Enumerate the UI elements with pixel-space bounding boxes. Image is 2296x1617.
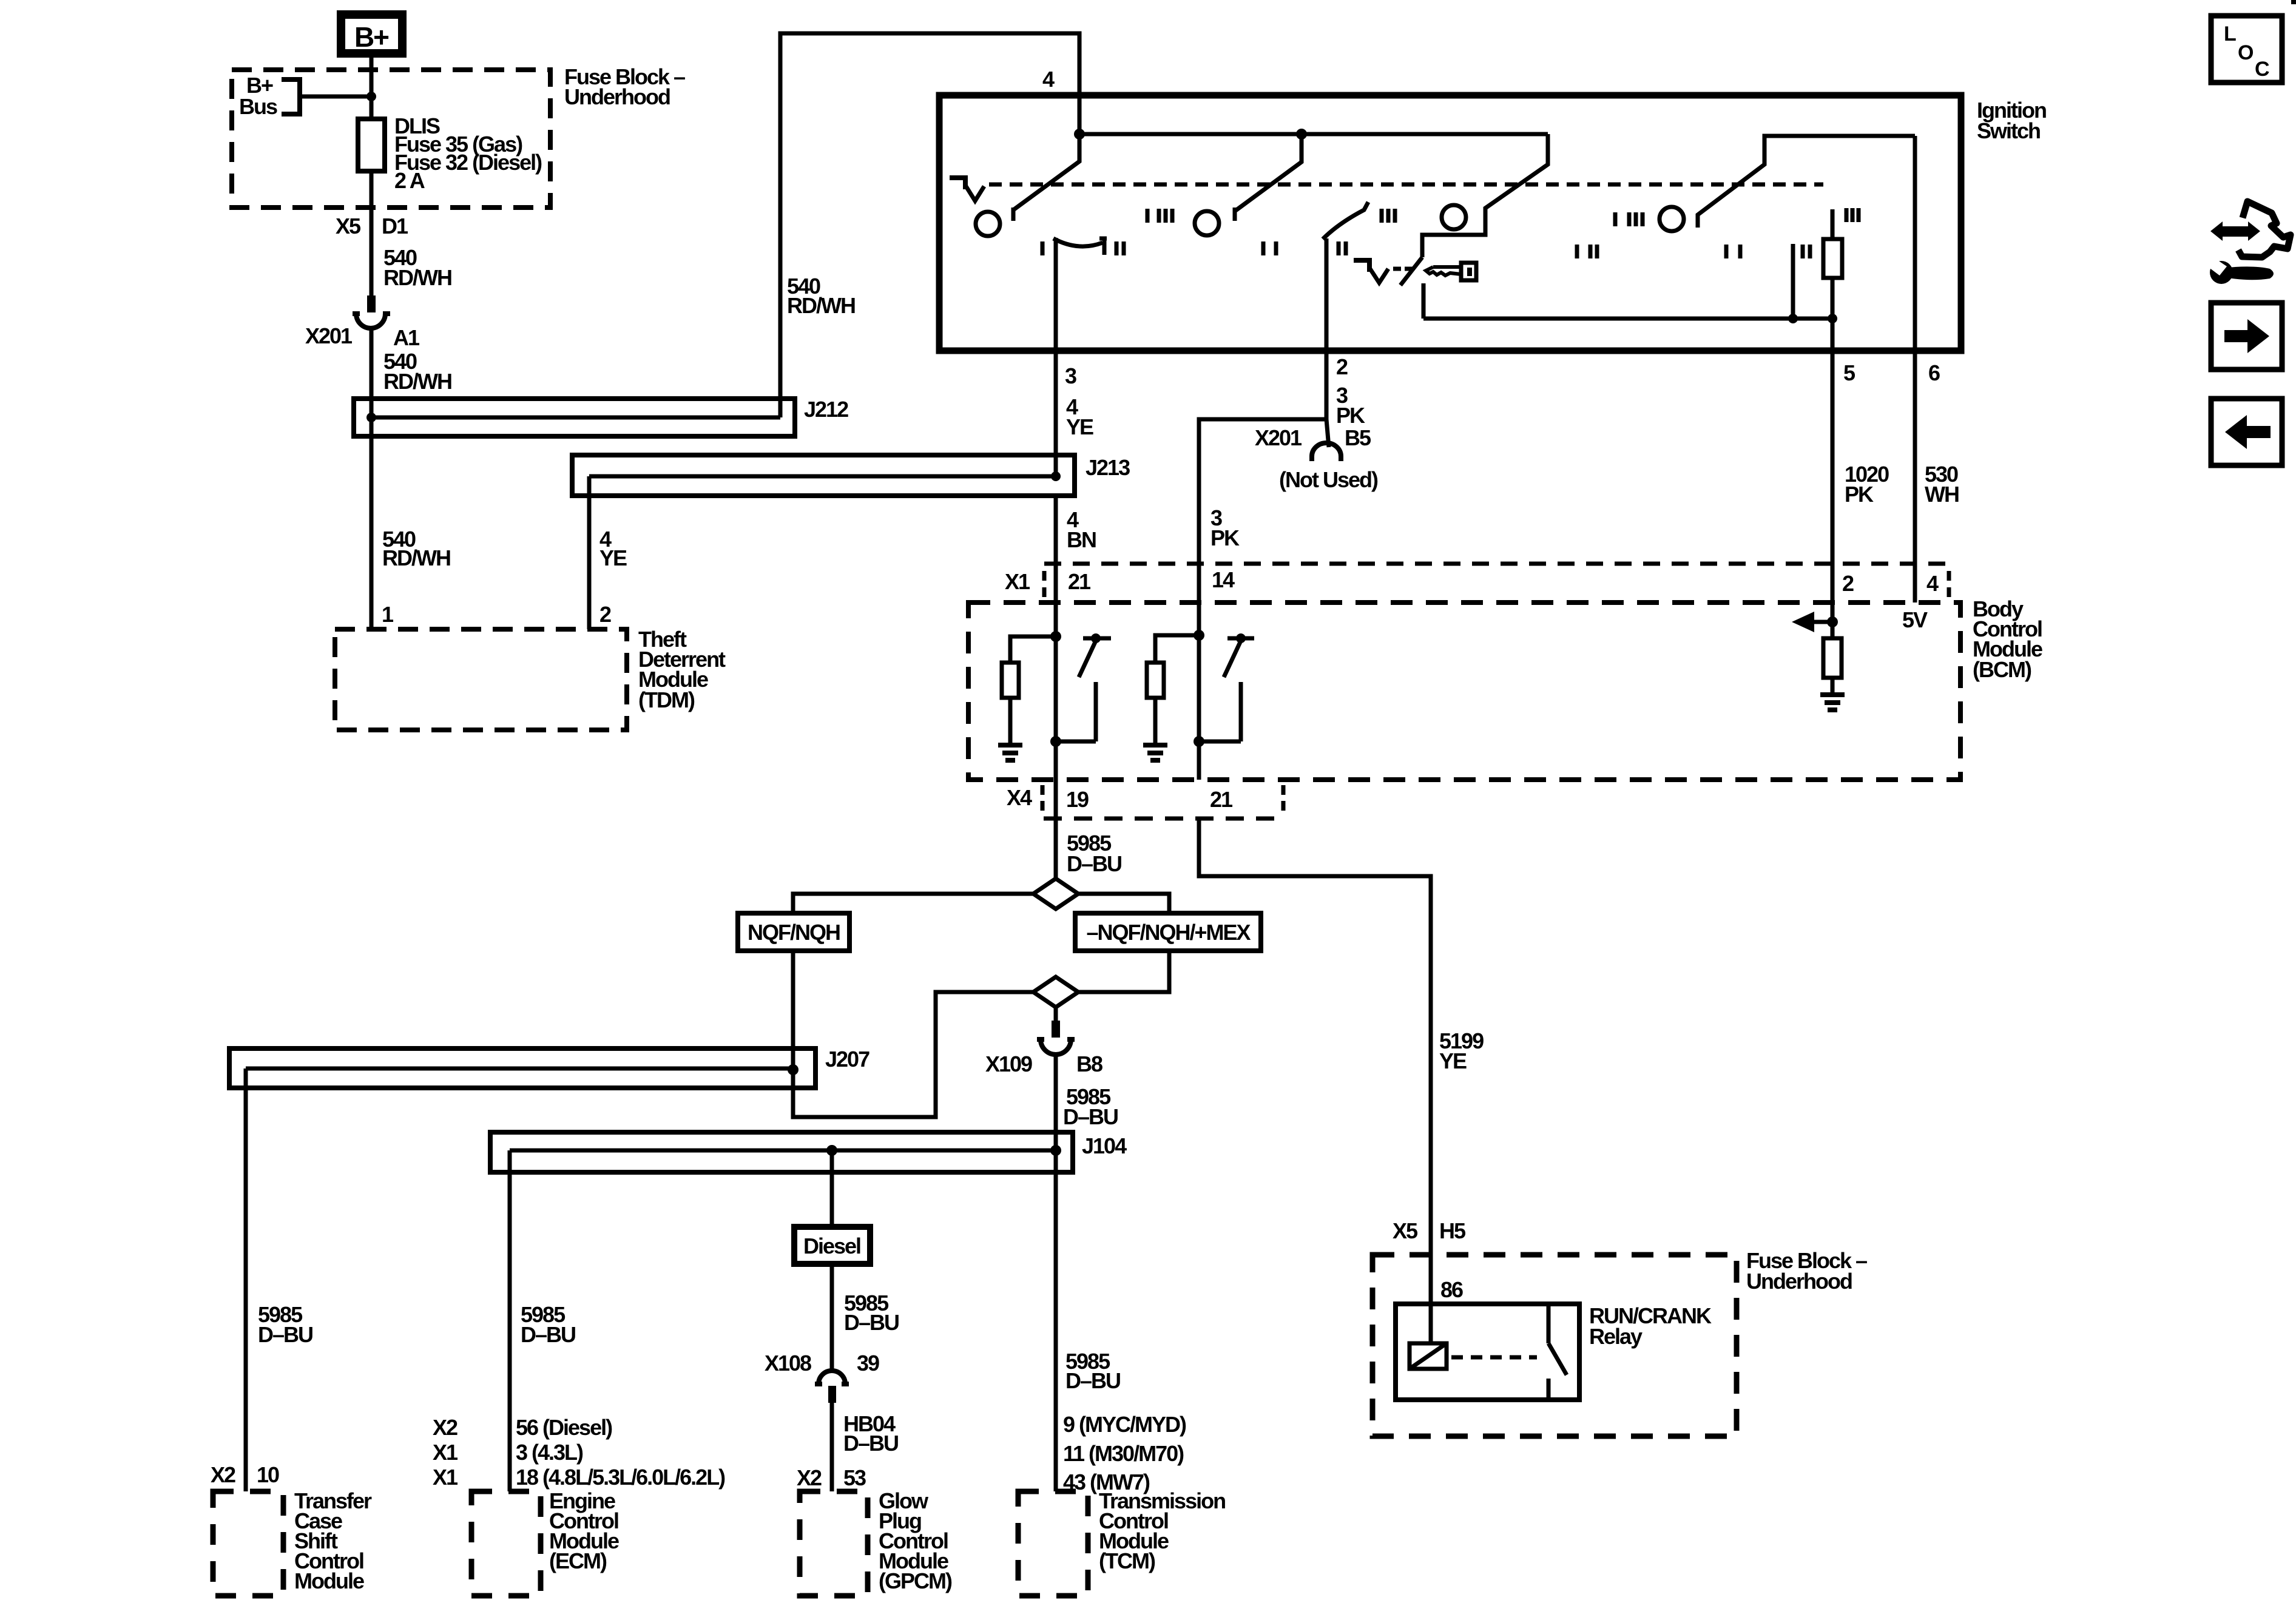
svg-text:14: 14	[1212, 567, 1235, 592]
left arrow icon box	[2211, 399, 2282, 465]
svg-text:(GPCM): (GPCM)	[879, 1568, 952, 1593]
label Theft Deterrent Module (TDM)	[638, 627, 726, 712]
splice diamond 2	[1033, 977, 1078, 1007]
node junction at J212	[366, 413, 376, 422]
wire X4-19 down	[1054, 780, 1058, 880]
ticks II near resistor	[1803, 245, 1810, 258]
label 4 YE (to TDM)	[599, 527, 627, 570]
svg-text:B+: B+	[354, 21, 388, 53]
svg-text:X201: X201	[305, 323, 353, 348]
wire B+ down	[370, 58, 374, 119]
pole 3 ticks I II (lower)	[1577, 245, 1597, 258]
label Ignition Switch	[1977, 98, 2046, 143]
svg-text:Switch: Switch	[1977, 118, 2040, 143]
svg-text:O: O	[2238, 41, 2254, 64]
svg-text:C: C	[2255, 58, 2270, 81]
theft deterrent module TDM box	[335, 629, 627, 730]
wire J207 to transfer case module	[244, 1068, 248, 1491]
pole 4 ticks I III (upper)	[1615, 212, 1643, 226]
svg-text:X109: X109	[985, 1052, 1032, 1076]
svg-text:39: 39	[857, 1351, 879, 1376]
wire BCM X4-21 to relay 86	[1199, 819, 1431, 1343]
relay actuation dashed link	[1451, 1355, 1537, 1360]
svg-text:D1: D1	[382, 214, 408, 238]
label X2 53 (GPCM pins)	[797, 1465, 866, 1490]
ignition switch box	[939, 95, 1961, 351]
svg-text:56 (Diesel): 56 (Diesel)	[516, 1415, 612, 1440]
label Transfer Case Shift Control Module	[294, 1488, 372, 1593]
node header dot 2	[1296, 129, 1307, 140]
svg-text:D–BU: D–BU	[1065, 1368, 1120, 1393]
connector X201 B5 (not used)	[1312, 443, 1341, 461]
label X5 D1	[336, 214, 408, 238]
svg-text:(Not Used): (Not Used)	[1279, 467, 1378, 492]
svg-text:RD/WH: RD/WH	[383, 369, 451, 394]
wire to resistor A	[1010, 636, 1056, 663]
svg-text:(BCM): (BCM)	[1973, 657, 2031, 682]
svg-text:X108: X108	[765, 1351, 811, 1376]
wire diamond1 right branch	[1078, 894, 1169, 913]
svg-text:J212: J212	[804, 397, 848, 422]
svg-text:4: 4	[1926, 571, 1939, 596]
ticks III right of crank arc	[1382, 209, 1395, 223]
page corner mark	[2291, 0, 2296, 4]
label X201 A1	[305, 323, 420, 350]
label RUN/CRANK Relay	[1589, 1303, 1712, 1349]
node header dot 1	[1074, 129, 1085, 140]
wire stub to X201 B5	[1326, 419, 1329, 447]
svg-text:D–BU: D–BU	[1063, 1104, 1118, 1129]
label HB04 D-BU	[843, 1411, 898, 1456]
label 5985 D-BU (GPCM)	[844, 1291, 899, 1335]
svg-text:D–BU: D–BU	[258, 1322, 312, 1347]
label X108 39	[765, 1351, 879, 1376]
wire resistor A to ground	[1008, 698, 1013, 744]
wire ignition pin 5 to BCM	[1831, 319, 1835, 638]
label X109 B8	[985, 1052, 1102, 1076]
node dot J104 diesel branch	[826, 1145, 837, 1156]
wire BCM input 21	[1054, 564, 1058, 780]
switch BCM A	[1079, 633, 1111, 741]
wire J213 to TDM pin 2	[587, 476, 592, 629]
svg-text:D–BU: D–BU	[843, 1431, 898, 1456]
svg-text:5: 5	[1843, 360, 1855, 385]
switch pole 2 arm	[1235, 134, 1302, 221]
svg-text:Underhood: Underhood	[564, 84, 670, 109]
pole 1 lower tick I	[1041, 241, 1045, 255]
svg-text:11 (M30/M70): 11 (M30/M70)	[1063, 1441, 1184, 1466]
node dot branch A top	[1050, 631, 1061, 642]
node dot J104 main	[1050, 1145, 1061, 1156]
svg-text:PK: PK	[1336, 403, 1365, 428]
wire J104 to ECM	[508, 1150, 512, 1491]
svg-text:X5: X5	[336, 214, 361, 238]
svg-text:3: 3	[1065, 363, 1076, 388]
label 5985 D-BU (ECM)	[521, 1302, 575, 1347]
svg-text:6: 6	[1928, 360, 1940, 385]
svg-text:(ECM): (ECM)	[549, 1548, 607, 1573]
relay coil	[1410, 1343, 1447, 1369]
svg-text:YE: YE	[1066, 414, 1093, 439]
svg-text:B5: B5	[1345, 425, 1371, 450]
wire ignition header	[1079, 132, 1548, 137]
wire fuse to X201	[370, 171, 374, 295]
svg-text:21: 21	[1210, 787, 1233, 812]
wire J104 bus	[510, 1149, 1056, 1153]
svg-text:NQF/NQH: NQF/NQH	[748, 920, 840, 945]
wire J212 bus	[371, 416, 780, 420]
node dot branch B bottom	[1194, 736, 1204, 747]
wire position II contact	[1791, 244, 1795, 319]
svg-text:H5: H5	[1439, 1218, 1466, 1243]
ground BCM B	[1143, 745, 1167, 760]
svg-text:86: 86	[1440, 1277, 1463, 1302]
contact circle pole 3	[1442, 205, 1466, 229]
svg-text:1: 1	[382, 602, 394, 627]
label 1020 PK	[1845, 462, 1889, 507]
svg-text:10: 10	[257, 1462, 279, 1487]
label 530 WH	[1925, 462, 1959, 507]
right arrow icon box	[2211, 303, 2282, 370]
svg-text:Underhood: Underhood	[1746, 1269, 1852, 1294]
wire key lower contact	[1422, 283, 1426, 319]
wire diamond1 left branch	[793, 894, 1033, 913]
svg-text:2: 2	[1336, 354, 1348, 379]
svg-text:X5: X5	[1393, 1218, 1418, 1243]
glow plug control module box	[800, 1491, 868, 1596]
transfer case shift control module box	[213, 1491, 283, 1596]
wire 3 PK from pin 2 to BCM 14	[1199, 351, 1326, 564]
pole 2 ticks II (right of wire 2)	[1339, 241, 1346, 255]
label Glow Plug Control Module (GPCM)	[879, 1488, 952, 1593]
pole 4 lower ticks I I	[1726, 245, 1740, 258]
wire ignition pin 3	[1054, 238, 1058, 476]
svg-text:19: 19	[1066, 787, 1089, 812]
wire diamond2 down to X109	[1054, 1007, 1058, 1021]
wire switch B return bus	[1199, 740, 1241, 744]
pole 2 ticks I III (upper)	[1147, 209, 1172, 223]
splice diamond 1	[1033, 879, 1078, 909]
label X2 10 (transfer pins)	[211, 1462, 279, 1487]
label 5985 D-BU (below X4)	[1067, 831, 1121, 876]
wire resistor B to ground	[1153, 698, 1158, 744]
svg-text:YE: YE	[599, 545, 627, 570]
connector X201 A1 inline	[353, 295, 390, 328]
label TDM pins 1 2	[382, 602, 611, 627]
pole 1 wiper arc	[1053, 238, 1107, 255]
svg-text:4: 4	[1042, 67, 1055, 92]
svg-text:(TDM): (TDM)	[638, 687, 695, 712]
svg-text:X1: X1	[433, 1465, 458, 1490]
svg-text:X201: X201	[1255, 425, 1302, 450]
wire key output bus	[1423, 317, 1832, 321]
contact circle pole 1	[976, 212, 1000, 236]
label ECM pin rows	[433, 1415, 725, 1490]
label Fuse Block - Underhood (relay)	[1746, 1248, 1867, 1294]
resistor BCM 5V pull	[1823, 638, 1842, 693]
node junction at B+ feed	[366, 92, 376, 101]
label Engine Control Module (ECM)	[549, 1488, 619, 1573]
wire J207 bus	[246, 1067, 793, 1071]
label X201 B5	[1255, 425, 1371, 450]
label TCM pin rows	[1063, 1412, 1186, 1494]
label 5985 D-BU (transfer)	[258, 1302, 312, 1347]
svg-text:X2: X2	[797, 1465, 822, 1490]
contact circle pole 2	[1195, 211, 1219, 235]
key actuation dashes	[1393, 267, 1413, 271]
node dot J207	[788, 1064, 799, 1075]
option box -NQF/NQH/+MEX	[1075, 913, 1261, 951]
resistor BCM B	[1147, 663, 1164, 698]
B+ power symbol	[341, 15, 402, 53]
svg-text:2: 2	[1842, 571, 1854, 596]
wire J104 to Diesel box	[830, 1150, 834, 1227]
wire X201 to J212 and TDM	[370, 328, 374, 629]
option box NQF/NQH	[738, 913, 849, 951]
svg-text:Diesel: Diesel	[803, 1234, 860, 1258]
node dot branch A bottom	[1050, 736, 1061, 747]
label 4 YE	[1066, 394, 1093, 439]
svg-text:RD/WH: RD/WH	[382, 545, 450, 570]
wire MEX branch down	[1078, 951, 1169, 992]
option box Diesel	[794, 1227, 870, 1264]
wire switch A return bus	[1056, 740, 1096, 744]
svg-text:2: 2	[599, 602, 611, 627]
connector X1 dotted strip	[1044, 564, 1949, 597]
svg-text:J213: J213	[1086, 455, 1130, 480]
splice pack J213	[572, 455, 1075, 496]
label Transmission Control Module (TCM)	[1099, 1488, 1225, 1573]
ground BCM 5V	[1820, 695, 1845, 710]
switch pole 3 key arm	[1422, 134, 1548, 257]
relay switch	[1548, 1304, 1567, 1400]
B+ bus bracket	[282, 79, 300, 114]
fuse block underhood box (top)	[232, 70, 550, 208]
splice pack J207	[229, 1048, 815, 1088]
RUN/CRANK relay box	[1396, 1304, 1579, 1400]
wire X108 to GPCM	[830, 1403, 834, 1491]
fuse block underhood dashed box (relay)	[1373, 1255, 1737, 1436]
svg-text:Relay: Relay	[1589, 1324, 1643, 1349]
label Fuse Block - Underhood	[564, 64, 685, 109]
svg-text:WH: WH	[1925, 482, 1959, 507]
label 540 RD/WH (above X201)	[383, 245, 451, 290]
label B+ Bus	[239, 73, 277, 119]
label Body Control Module (BCM)	[1973, 596, 2042, 682]
svg-text:21: 21	[1068, 569, 1091, 594]
switch pole 1 arm	[1013, 134, 1079, 221]
wire J213 to BCM X1-21	[1054, 496, 1058, 564]
svg-text:B8: B8	[1076, 1052, 1102, 1076]
wire ignition pin 2	[1325, 238, 1329, 351]
svg-text:3 (4.3L): 3 (4.3L)	[516, 1440, 583, 1465]
contact circle pole 4	[1660, 207, 1684, 231]
wire 540 RD/WH to ignition switch pin 4	[780, 33, 1079, 417]
svg-text:(TCM): (TCM)	[1099, 1548, 1155, 1573]
svg-text:RD/WH: RD/WH	[383, 265, 451, 290]
fuse DLIS Fuse 35 (Gas) Fuse 32 (Diesel) 2A	[358, 113, 542, 193]
svg-text:2 A: 2 A	[394, 168, 425, 193]
node dot II contact	[1788, 314, 1798, 323]
internal 5V arrow	[1792, 612, 1838, 632]
hand with wrench icon	[2205, 201, 2291, 284]
svg-text:A1: A1	[393, 325, 420, 350]
svg-text:PK: PK	[1210, 525, 1240, 550]
switch BCM B	[1224, 633, 1254, 741]
label 5199 YE	[1439, 1028, 1484, 1073]
resistor (ignition)	[1823, 209, 1842, 319]
wire J213 bus	[589, 474, 1056, 479]
label 3 PK (to BCM 14)	[1210, 505, 1240, 550]
ticks III right of resistor	[1846, 208, 1859, 222]
engine control module box	[471, 1491, 541, 1596]
label 540 RD/WH (riser)	[787, 274, 855, 318]
LOC icon box	[2211, 16, 2282, 83]
wire B+ bus to main	[302, 95, 371, 99]
svg-text:Bus: Bus	[239, 94, 277, 119]
label X5 H5	[1393, 1218, 1466, 1243]
wire to resistor B	[1155, 635, 1199, 663]
ignition mechanical link dashed line	[989, 183, 1823, 187]
svg-text:X2: X2	[433, 1415, 458, 1440]
Ev symbol (left)	[950, 175, 984, 201]
svg-text:D–BU: D–BU	[844, 1310, 899, 1335]
splice pack J212	[354, 399, 795, 436]
wire ignition pin 6	[1913, 136, 1917, 603]
resistor BCM A	[1002, 663, 1019, 698]
svg-text:X1: X1	[433, 1440, 458, 1465]
svg-text:BN: BN	[1067, 527, 1096, 552]
svg-text:Module: Module	[294, 1568, 364, 1593]
svg-text:RD/WH: RD/WH	[787, 293, 855, 318]
svg-text:–NQF/NQH/+MEX: –NQF/NQH/+MEX	[1086, 920, 1251, 945]
svg-text:X1: X1	[1005, 569, 1030, 594]
svg-text:9 (MYC/MYD): 9 (MYC/MYD)	[1063, 1412, 1186, 1437]
label 3 PK (right)	[1336, 383, 1365, 428]
node dot resistor junction	[1828, 314, 1837, 323]
svg-text:PK: PK	[1845, 482, 1874, 507]
Ev symbol (key)	[1354, 258, 1388, 283]
svg-text:D–BU: D–BU	[521, 1322, 575, 1347]
pole 1 ticks II	[1116, 241, 1124, 255]
wire Diesel to X108	[830, 1264, 834, 1372]
label 540 RD/WH (to TDM)	[382, 527, 450, 570]
svg-text:L: L	[2224, 22, 2237, 46]
wire X109 to J104 and TCM	[1054, 1055, 1058, 1491]
label 5985 D-BU (TCM)	[1065, 1349, 1120, 1393]
transmission control module box	[1018, 1491, 1088, 1596]
svg-text:YE: YE	[1439, 1048, 1467, 1073]
key switch blade	[1400, 257, 1422, 285]
svg-text:18 (4.8L/5.3L/6.0L/6.2L): 18 (4.8L/5.3L/6.0L/6.2L)	[516, 1465, 725, 1490]
svg-text:X2: X2	[211, 1462, 235, 1487]
connector X109 B8 inline	[1037, 1021, 1075, 1055]
label 540 RD/WH (below X201)	[383, 349, 451, 394]
label 4 BN (to BCM 21)	[1067, 507, 1096, 552]
svg-text:J104: J104	[1082, 1133, 1127, 1158]
svg-text:D–BU: D–BU	[1067, 851, 1121, 876]
svg-text:X4: X4	[1007, 785, 1032, 810]
pole 2 lower ticks I I	[1263, 241, 1276, 255]
svg-text:5V: 5V	[1902, 607, 1928, 632]
node dot branch B top	[1194, 630, 1204, 641]
wire NQF branch down through J207	[793, 951, 1033, 1117]
svg-text:J207: J207	[825, 1047, 869, 1072]
node junction at J213	[1051, 471, 1061, 481]
wire BCM input 14	[1197, 564, 1201, 780]
switch pole 4 arm	[1698, 136, 1915, 228]
connector X108 39 inline	[815, 1371, 849, 1403]
svg-text:53: 53	[843, 1465, 866, 1490]
label 5985 D-BU (X109)	[1063, 1084, 1118, 1129]
key symbol	[1426, 263, 1476, 280]
body control module BCM dashed box	[968, 603, 1960, 780]
crank return arc with tip	[1323, 202, 1368, 239]
splice pack J104	[490, 1132, 1073, 1172]
connector X4 dashed strip	[1042, 785, 1283, 819]
ground BCM A	[998, 745, 1022, 760]
